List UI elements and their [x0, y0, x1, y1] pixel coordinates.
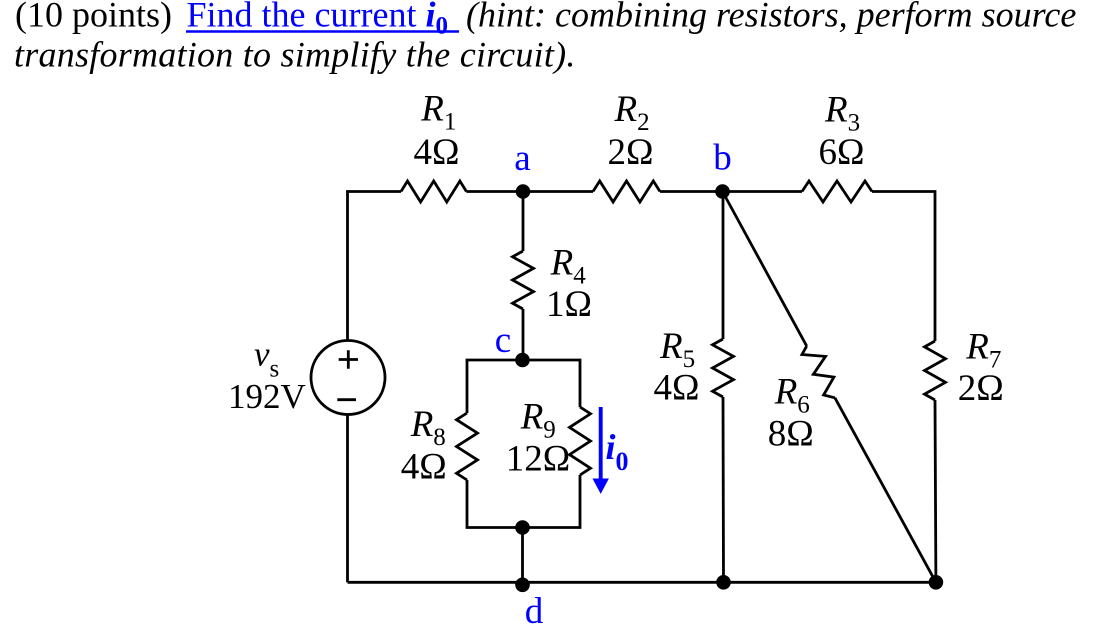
wire source bottom to bottom wire	[346, 415, 349, 583]
svg-text:c: c	[495, 320, 511, 361]
wire R6 to bottom-right node	[835, 398, 936, 583]
resistor R4	[513, 251, 534, 309]
svg-text:transformation to simplify the: transformation to simplify the circuit).	[14, 35, 576, 75]
svg-text:d: d	[525, 591, 544, 632]
wire R5 to bottom node	[722, 397, 725, 582]
wire node b to R6	[723, 192, 807, 347]
resistor R2	[593, 181, 660, 202]
wire R3 to top-right corner	[872, 192, 935, 342]
node a junction dot	[516, 184, 531, 199]
node c junction dot	[515, 353, 530, 368]
title underline	[186, 30, 459, 33]
wire R1 to node a	[466, 190, 593, 193]
svg-text:12Ω: 12Ω	[506, 439, 571, 480]
resistor R8	[457, 413, 478, 480]
wire block to node d	[521, 528, 524, 583]
resistor R5	[713, 339, 734, 397]
node d junction dot	[515, 578, 530, 593]
svg-text:4Ω: 4Ω	[414, 132, 460, 173]
minus sign of source	[337, 398, 356, 401]
bottom-right junction dot	[929, 575, 944, 590]
parallel block bottom wire	[467, 475, 580, 528]
svg-text:192V: 192V	[228, 377, 306, 416]
svg-text:6Ω: 6Ω	[819, 132, 865, 173]
wire R4 to node c	[522, 309, 525, 360]
svg-text:1Ω: 1Ω	[546, 284, 592, 325]
plus sign of source	[339, 350, 358, 369]
svg-text:a: a	[514, 138, 530, 179]
resistor R3	[802, 181, 872, 202]
resistor R6	[802, 346, 835, 398]
wire node b to R5	[722, 192, 725, 340]
svg-text:2Ω: 2Ω	[958, 368, 1004, 409]
resistor R7	[925, 341, 946, 400]
wire R7 to bottom-right node	[934, 400, 938, 582]
svg-text:4Ω: 4Ω	[401, 446, 447, 487]
resistor R1	[401, 181, 466, 202]
svg-text:4Ω: 4Ω	[654, 368, 700, 409]
node b junction dot	[715, 184, 730, 199]
svg-text:b: b	[713, 138, 732, 179]
wire node a to R4	[522, 192, 525, 252]
svg-text:2Ω: 2Ω	[608, 132, 654, 173]
R5 bottom junction dot	[716, 575, 731, 590]
parallel block top wire	[467, 360, 580, 413]
svg-text:8Ω: 8Ω	[768, 414, 814, 455]
current i0 arrow	[593, 407, 609, 494]
bottom wire	[348, 581, 936, 584]
resistor R9	[570, 407, 591, 475]
wire top-left corner to R1	[348, 192, 402, 341]
block bottom junction dot	[515, 520, 530, 535]
voltage source vs circle	[311, 341, 385, 415]
wire R2 to node b	[660, 190, 802, 193]
